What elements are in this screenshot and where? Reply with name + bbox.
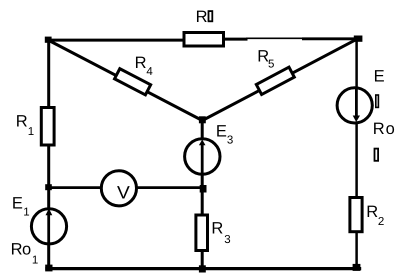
- label R6 missing-glyph box: [209, 11, 213, 21]
- svg-text:1: 1: [23, 206, 29, 218]
- svg-text:V: V: [117, 182, 130, 202]
- node: top-right junction: [354, 36, 363, 42]
- resistor R5 body (rotated): [256, 67, 294, 94]
- svg-text:E: E: [12, 194, 23, 212]
- svg-text:3: 3: [224, 234, 230, 246]
- wire: right vertical branch: [355, 38, 358, 268]
- svg-text:2: 2: [378, 216, 384, 228]
- svg-text:R: R: [196, 8, 208, 26]
- wire: top horizontal right thick segment 1: [223, 38, 248, 41]
- svg-text:1: 1: [32, 254, 38, 266]
- svg-text:Ro: Ro: [373, 120, 395, 138]
- wire: left vertical branch: [47, 38, 50, 269]
- wire: top horizontal thin segment: [246, 37, 303, 39]
- node: bottom-middle junction: [199, 265, 206, 272]
- wire: top horizontal right thick segment 2: [302, 37, 359, 40]
- arrow of source E1 (up): [47, 213, 50, 244]
- resistor R3 body: [196, 215, 208, 251]
- svg-text:5: 5: [268, 59, 274, 71]
- svg-text:3: 3: [227, 135, 233, 147]
- source E1/Ro1 circle: [31, 209, 66, 244]
- source E2/Ro2 circle (right): [337, 88, 372, 123]
- wire: R5 diagonal branch: [202, 39, 358, 121]
- wire: top horizontal left segment: [47, 39, 184, 42]
- svg-text:R: R: [16, 113, 28, 131]
- node: bottom-left junction: [45, 265, 52, 272]
- source E3 circle: [185, 139, 220, 174]
- node: left middle junction: [45, 184, 52, 190]
- svg-text:R: R: [135, 54, 147, 72]
- svg-text:1: 1: [28, 126, 34, 138]
- resistor R4 body (rotated): [115, 69, 151, 95]
- svg-text:R: R: [211, 220, 223, 238]
- svg-text:E: E: [216, 122, 227, 140]
- svg-text:E: E: [374, 67, 385, 85]
- arrow of source E3 (up): [201, 144, 204, 174]
- label E subscript missing-glyph box: [376, 95, 379, 107]
- resistor R1 body: [41, 108, 54, 146]
- wire: middle vertical branch: [201, 118, 204, 269]
- node: bottom-right junction: [353, 264, 361, 271]
- resistor R6 (top) body: [184, 33, 224, 47]
- resistor R2 body: [350, 198, 362, 232]
- arrow of source E2 (down): [355, 88, 358, 116]
- svg-text:Ro: Ro: [11, 240, 32, 258]
- label Ro subscript missing-glyph box: [375, 149, 379, 161]
- svg-text:4: 4: [146, 66, 153, 78]
- voltmeter V circle: [101, 171, 136, 206]
- wire: middle horizontal (voltmeter) branch: [47, 186, 204, 189]
- node: top-left junction: [45, 37, 52, 43]
- node: center junction (R4/R5/E3): [199, 116, 206, 123]
- wire: bottom horizontal: [45, 267, 361, 270]
- node: middle junction right of V: [200, 185, 207, 193]
- svg-text:R: R: [366, 203, 378, 221]
- wire: R4 diagonal branch: [48, 40, 202, 121]
